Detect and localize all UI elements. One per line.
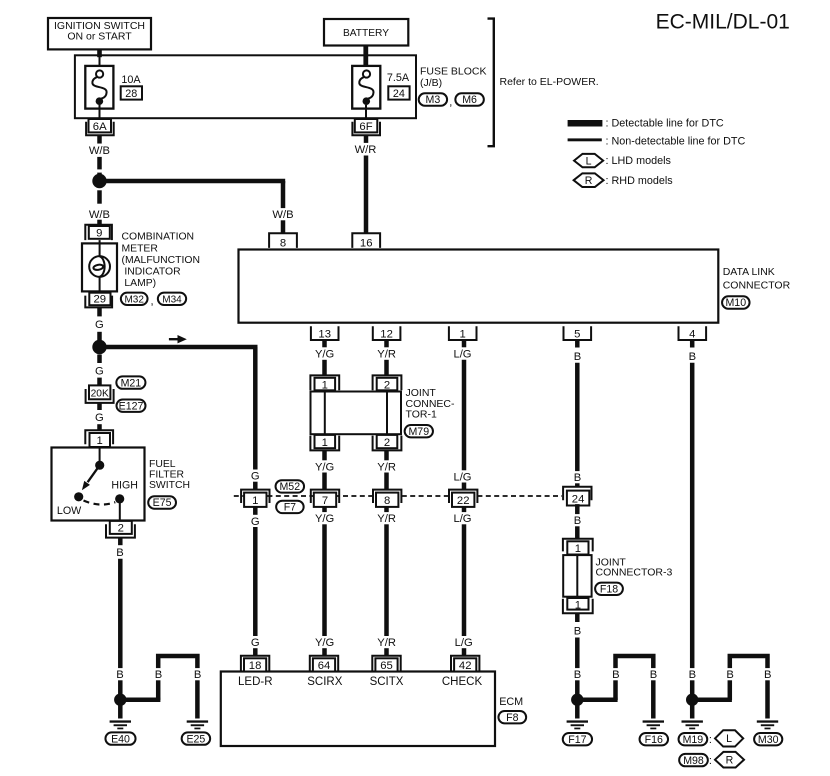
battery box [324, 19, 408, 46]
meter internal wire bottom [99, 277, 101, 292]
wire W/B branch vertical [281, 181, 286, 233]
connector ref F17 [563, 733, 592, 746]
connector 2 (switch) [106, 521, 135, 538]
svg-text:F7: F7 [284, 502, 296, 514]
wire W/R to DLC 16 [364, 156, 369, 234]
wire LG 22 to ECM [462, 507, 467, 656]
connector 9 [85, 225, 112, 240]
legend thin bar [568, 138, 602, 141]
ECM pin 18 [241, 656, 269, 672]
fuse 7.5A 24 [352, 66, 380, 109]
label G branch [249, 470, 261, 483]
svg-text:Y/R: Y/R [377, 461, 396, 473]
fuse block bracket [488, 19, 494, 147]
hexagon LHD M19 [715, 730, 743, 746]
svg-text:(J/B): (J/B) [420, 77, 442, 89]
wire E25 bridge [158, 656, 197, 719]
svg-text:28: 28 [125, 88, 137, 100]
svg-text:M98: M98 [683, 755, 704, 767]
wire YG DLC stub [322, 340, 327, 348]
label B5 2 [572, 471, 582, 484]
svg-text:E25: E25 [186, 733, 205, 745]
svg-text:1: 1 [252, 495, 258, 507]
meter lamp (MIL bulb) [89, 256, 110, 277]
svg-text:M34: M34 [162, 295, 182, 306]
svg-text:Y/R: Y/R [377, 348, 396, 360]
svg-text:B: B [574, 351, 581, 363]
svg-text:B: B [574, 625, 581, 637]
svg-text:B: B [689, 351, 696, 363]
svg-text:Y/G: Y/G [315, 513, 334, 525]
svg-text:ECM: ECM [499, 696, 523, 708]
wire B JC3 stub [575, 613, 580, 622]
svg-text:G: G [95, 319, 104, 331]
svg-text:8: 8 [384, 495, 390, 507]
wire B5 to 24 [575, 363, 580, 487]
svg-text:64: 64 [318, 660, 331, 672]
ECM pin 42 [451, 656, 479, 672]
svg-text:2: 2 [384, 437, 390, 449]
svg-text:: RHD models: : RHD models [606, 175, 674, 187]
ECM pin 64 [310, 656, 338, 672]
label L/G 2 [452, 470, 473, 483]
svg-text:20K: 20K [91, 388, 109, 399]
wire G dash 2 [97, 355, 102, 364]
joint connector-1 body [311, 392, 402, 435]
svg-text:FUSE BLOCK: FUSE BLOCK [420, 66, 487, 78]
wire YG JC1 to 7 [322, 450, 327, 490]
label B bridge right [192, 668, 202, 681]
svg-text:L/G: L/G [453, 513, 471, 525]
svg-text:E40: E40 [111, 733, 130, 745]
title EC-MIL/DL-01 [656, 11, 790, 34]
svg-text:CHECK: CHECK [442, 676, 483, 688]
wire W/B branch horizontal [100, 179, 286, 184]
wire LG to 22 [462, 360, 467, 490]
label Y/R 2 [376, 460, 398, 473]
inline connector 22 [449, 490, 477, 507]
svg-text:W/B: W/B [89, 209, 110, 221]
colon M19 [709, 734, 712, 746]
legend RHD hexagon [574, 173, 604, 187]
svg-text:LOW: LOW [57, 505, 82, 517]
wire G 20K stub [97, 403, 102, 410]
resistor 20K [86, 385, 114, 403]
flow arrow [169, 335, 187, 343]
svg-text:24: 24 [572, 493, 585, 505]
junction dot F17 [571, 694, 583, 706]
svg-text:M3: M3 [426, 94, 441, 106]
wire M30 bridge [730, 656, 768, 719]
svg-text:HIGH: HIGH [111, 480, 137, 492]
DLC pin 13 [311, 326, 339, 340]
label L/G 4 [453, 636, 474, 649]
svg-text:1: 1 [575, 543, 581, 555]
connector ref M10 [722, 296, 750, 309]
label B5 3 [572, 514, 582, 527]
svg-text:9: 9 [96, 228, 102, 240]
ground symbol E25 [187, 720, 208, 729]
connector ref E25 [182, 732, 211, 745]
ignition switch box [48, 18, 151, 49]
connector ref M32 [121, 293, 148, 306]
connector ref F7 [276, 501, 304, 514]
svg-text:B: B [612, 669, 619, 681]
svg-text:G: G [95, 365, 104, 377]
wire G 29 stub [97, 307, 102, 316]
svg-text:G: G [251, 471, 260, 483]
label G 4 [249, 515, 261, 528]
svg-text:FUEL: FUEL [149, 459, 176, 470]
wire YG to JC1 [322, 360, 327, 376]
switch contact LOW [74, 492, 83, 501]
label B bridge left [153, 668, 163, 681]
svg-text:B: B [726, 669, 733, 681]
fuse 10A 28 [85, 66, 113, 109]
fuse 28 label 10A [121, 74, 141, 86]
svg-text:7: 7 [322, 495, 328, 507]
label Y/G 2 [313, 460, 335, 473]
data link connector box [239, 250, 719, 323]
label L/G 3 [452, 512, 473, 525]
DLC pin 1 [449, 326, 477, 340]
svg-text:COMBINATION: COMBINATION [122, 232, 195, 243]
label W/B 2 [87, 208, 111, 221]
wire W/B dash 2 [97, 173, 102, 181]
svg-text:B: B [155, 669, 162, 681]
wire G dash 1 [97, 332, 102, 345]
svg-text:B: B [574, 472, 581, 484]
connector ref M6 [455, 93, 484, 106]
wire W/B dash 3 [97, 190, 102, 203]
svg-text:G: G [95, 412, 104, 424]
wire F16 bridge [616, 656, 654, 719]
label B4 1 [687, 350, 697, 363]
svg-text:B: B [689, 669, 696, 681]
label B E40 [115, 668, 125, 681]
svg-text:L: L [726, 733, 732, 745]
wire B4 DLC stub [690, 340, 695, 348]
label B F17 [572, 668, 582, 681]
svg-text:LED-R: LED-R [238, 676, 273, 688]
label G 2 [94, 364, 106, 377]
svg-text:F17: F17 [568, 734, 586, 746]
label B4 2 [687, 668, 697, 681]
ground symbol M19 [682, 720, 703, 729]
svg-text:1: 1 [460, 329, 466, 341]
svg-text:: Non-detectable line for DTC: : Non-detectable line for DTC [606, 135, 746, 147]
svg-text:F18: F18 [600, 584, 618, 596]
svg-text:65: 65 [380, 660, 393, 672]
svg-text:METER: METER [122, 243, 159, 254]
svg-text:CONNECTOR: CONNECTOR [723, 280, 791, 292]
connector ref F16 [640, 733, 669, 746]
wire to ground E40 [118, 700, 123, 719]
label B M30 right [762, 668, 772, 681]
comma between M32 M34 [150, 295, 153, 307]
joint connector-3 body [563, 555, 591, 597]
svg-text:LAMP): LAMP) [124, 278, 156, 289]
label B F16 left [611, 668, 621, 681]
svg-text:L/G: L/G [453, 471, 471, 483]
label FUEL FILTER SWITCH [149, 459, 190, 491]
DLC pin 16 [352, 233, 380, 249]
label W/R [353, 143, 378, 156]
svg-text:M6: M6 [462, 94, 477, 106]
wire W/B dash 4 [97, 220, 102, 225]
fuel filter switch box [52, 448, 145, 521]
svg-text:M30: M30 [758, 734, 779, 746]
wire G to fuel filter switch [97, 424, 102, 430]
wire W/B dash 1 [97, 157, 102, 170]
colon M98 [709, 755, 712, 767]
ECM box [221, 672, 495, 747]
svg-text:4: 4 [689, 329, 695, 341]
junction dot B [92, 340, 106, 354]
junction dot M19 [686, 694, 698, 706]
label SCITX [370, 676, 404, 688]
svg-text:18: 18 [249, 660, 262, 672]
connector ref M52 [276, 480, 305, 493]
wire battery to fuse 24 [363, 46, 368, 71]
svg-text:M19: M19 [683, 734, 704, 746]
legend detectable text [606, 118, 724, 130]
DLC pin 12 [373, 326, 401, 340]
wire B5 DLC stub [575, 340, 580, 348]
svg-text:B: B [650, 669, 657, 681]
svg-text:W/B: W/B [89, 145, 110, 157]
svg-text::: : [709, 734, 712, 746]
svg-text:F16: F16 [645, 734, 663, 746]
connector ref E40 [105, 732, 135, 745]
label B5 1 [572, 350, 582, 363]
svg-text:B: B [194, 669, 201, 681]
wire fuse 28 to 6A [99, 105, 101, 119]
svg-text:16: 16 [360, 238, 373, 250]
svg-text:1: 1 [322, 379, 328, 391]
switch wire pin2 [119, 499, 121, 521]
svg-text:5: 5 [574, 329, 580, 341]
wire junction to bridge [120, 697, 160, 702]
svg-text:Y/G: Y/G [315, 461, 334, 473]
svg-text:(MALFUNCTION: (MALFUNCTION [122, 255, 201, 266]
fuse block (J/B) outline [75, 55, 416, 118]
svg-text:E127: E127 [119, 400, 144, 412]
svg-text:L/G: L/G [455, 637, 473, 649]
combination meter box [82, 243, 117, 291]
svg-text:13: 13 [318, 329, 331, 341]
svg-text:L: L [586, 155, 592, 167]
label G 1 [94, 318, 106, 331]
label ECM [499, 696, 523, 708]
svg-text:SCITX: SCITX [370, 676, 404, 688]
svg-text:Y/R: Y/R [377, 637, 396, 649]
svg-text:42: 42 [459, 660, 472, 672]
inline connector 8 [373, 490, 401, 507]
svg-text:22: 22 [457, 495, 470, 507]
svg-text:,: , [449, 97, 452, 109]
wire G dash 3 [97, 378, 102, 386]
connector ref M3 [419, 93, 447, 106]
svg-text::: : [709, 755, 712, 767]
label Refer to EL-POWER. [500, 76, 599, 88]
svg-text:: Detectable line for DTC: : Detectable line for DTC [606, 118, 724, 130]
joint connector-1 pin 1 top [310, 375, 339, 391]
wire YR 8 to ECM [384, 507, 389, 656]
label G 5 [249, 636, 261, 649]
ground symbol F17 [567, 720, 588, 729]
label LED-R [238, 676, 273, 688]
svg-text:12: 12 [380, 329, 393, 341]
svg-text:8: 8 [280, 238, 286, 250]
meter internal wire top [99, 240, 101, 257]
svg-text:R: R [726, 755, 734, 767]
switch arm with arrow [82, 465, 100, 490]
wire G branch horizontal [100, 345, 258, 350]
svg-text:M52: M52 [279, 481, 300, 493]
legend non-detectable text [606, 135, 746, 147]
svg-text:FILTER: FILTER [149, 470, 185, 481]
dashed harness line [234, 495, 562, 497]
wire B to F17 junction [575, 638, 580, 701]
label SCIRX [307, 676, 342, 688]
DLC pin 5 [564, 326, 592, 340]
svg-text:M10: M10 [725, 297, 746, 309]
fuse 24 number box [388, 86, 409, 100]
svg-text:W/B: W/B [272, 209, 293, 221]
svg-text:L/G: L/G [453, 348, 471, 360]
svg-text:B: B [116, 547, 123, 559]
ground symbol F16 [643, 720, 664, 729]
wire YR JC1 to 8 [384, 450, 389, 490]
svg-text:M21: M21 [121, 377, 142, 389]
svg-text:6F: 6F [359, 121, 372, 133]
label HIGH [111, 480, 137, 492]
connector ref M21 [116, 376, 145, 389]
svg-text:2: 2 [384, 379, 390, 391]
DLC pin 4 [679, 326, 707, 340]
connector 24 [563, 487, 591, 506]
svg-text:,: , [150, 295, 153, 307]
label DATA LINK CONNECTOR [723, 266, 791, 292]
wire fuse 24 to 6F [365, 105, 367, 119]
wire B to junction [118, 559, 123, 700]
wire G branch vertical [253, 347, 258, 490]
wire B4 long [690, 363, 695, 700]
wire LG DLC stub [462, 340, 467, 348]
connector ref M19 [679, 733, 708, 746]
label Y/R 3 [376, 512, 398, 525]
svg-text:24: 24 [393, 88, 405, 100]
label B F16 right [648, 668, 658, 681]
legend LHD text [606, 155, 672, 167]
connector ref F18 [595, 583, 623, 596]
switch wire pin1 [99, 448, 101, 462]
svg-text:29: 29 [94, 294, 107, 306]
svg-text:G: G [251, 516, 260, 528]
svg-text:Y/R: Y/R [377, 513, 396, 525]
connector ref M34 [158, 293, 186, 306]
wire to ground F17 [575, 700, 580, 719]
joint connector-1 pin 2 bottom [373, 435, 402, 451]
switch dashed arc [84, 501, 116, 505]
label CHECK [442, 676, 483, 688]
switch contact HIGH [115, 494, 124, 503]
wire F17 junction to bridge [577, 697, 617, 702]
joint connector-1 pin 1 bottom [310, 435, 339, 451]
svg-text:R: R [585, 175, 593, 187]
wire YR to JC1 [384, 360, 389, 376]
hexagon RHD M98 [715, 752, 744, 768]
label Y/R 4 [376, 636, 398, 649]
label FUSE BLOCK (J/B) [420, 66, 487, 90]
inline connector 7 [311, 490, 339, 507]
svg-text:7.5A: 7.5A [387, 72, 410, 84]
svg-text:10A: 10A [121, 74, 141, 86]
wire YR DLC stub [384, 340, 389, 348]
connector 29 [85, 293, 112, 308]
connector ref E127 [117, 400, 146, 413]
svg-text:: LHD models: : LHD models [606, 155, 672, 167]
svg-text:B: B [764, 669, 771, 681]
connector ref E75 [148, 496, 176, 509]
label B M30 left [725, 668, 735, 681]
svg-text:Y/G: Y/G [315, 348, 334, 360]
svg-text:1: 1 [575, 600, 581, 612]
inline connector 1 (M52/F7) [241, 490, 269, 507]
switch contact common [95, 461, 104, 470]
svg-text:1: 1 [322, 437, 328, 449]
wire B5 24 to JC3 [575, 504, 580, 539]
connector 6A [86, 119, 114, 135]
label B switch [115, 546, 125, 559]
joint connector-3 pin 1 bottom [563, 598, 593, 613]
legend RHD text [606, 175, 674, 187]
connector 1 (switch) [85, 430, 113, 447]
svg-text:G: G [251, 637, 260, 649]
svg-text:F8: F8 [506, 712, 518, 724]
wire ignition switch to fuse 28 [97, 49, 102, 70]
legend LHD hexagon [574, 154, 603, 168]
label W/B [87, 144, 111, 157]
connector ref M79 [405, 425, 433, 438]
svg-text:TOR-1: TOR-1 [406, 409, 437, 421]
svg-text:W/R: W/R [355, 144, 377, 156]
DLC pin 8 [269, 233, 297, 249]
svg-text:2: 2 [118, 523, 124, 535]
ground symbol E40 [110, 720, 131, 729]
connector ref F8 [498, 711, 526, 724]
wire W/B 6A stub [97, 135, 102, 143]
svg-text:ON or START: ON or START [67, 31, 132, 43]
svg-text:6A: 6A [93, 121, 107, 133]
svg-text:DATA LINK: DATA LINK [723, 266, 775, 278]
wire W/R 6F stub [364, 135, 369, 143]
svg-text:E75: E75 [153, 497, 172, 509]
label Y/G 1 [313, 347, 335, 360]
svg-text:INDICATOR: INDICATOR [124, 267, 181, 278]
svg-text:EC-MIL/DL-01: EC-MIL/DL-01 [656, 11, 790, 34]
fuse 28 number box [121, 86, 142, 100]
comma between M3 M6 [449, 97, 452, 109]
svg-text:B: B [116, 669, 123, 681]
ECM pin 65 [372, 656, 400, 672]
legend thick bar [568, 120, 603, 127]
label LOW [57, 505, 82, 517]
wire B switch stub [118, 538, 123, 546]
label JOINT CONNECTOR-3 [596, 557, 673, 579]
svg-text:Y/G: Y/G [315, 637, 334, 649]
